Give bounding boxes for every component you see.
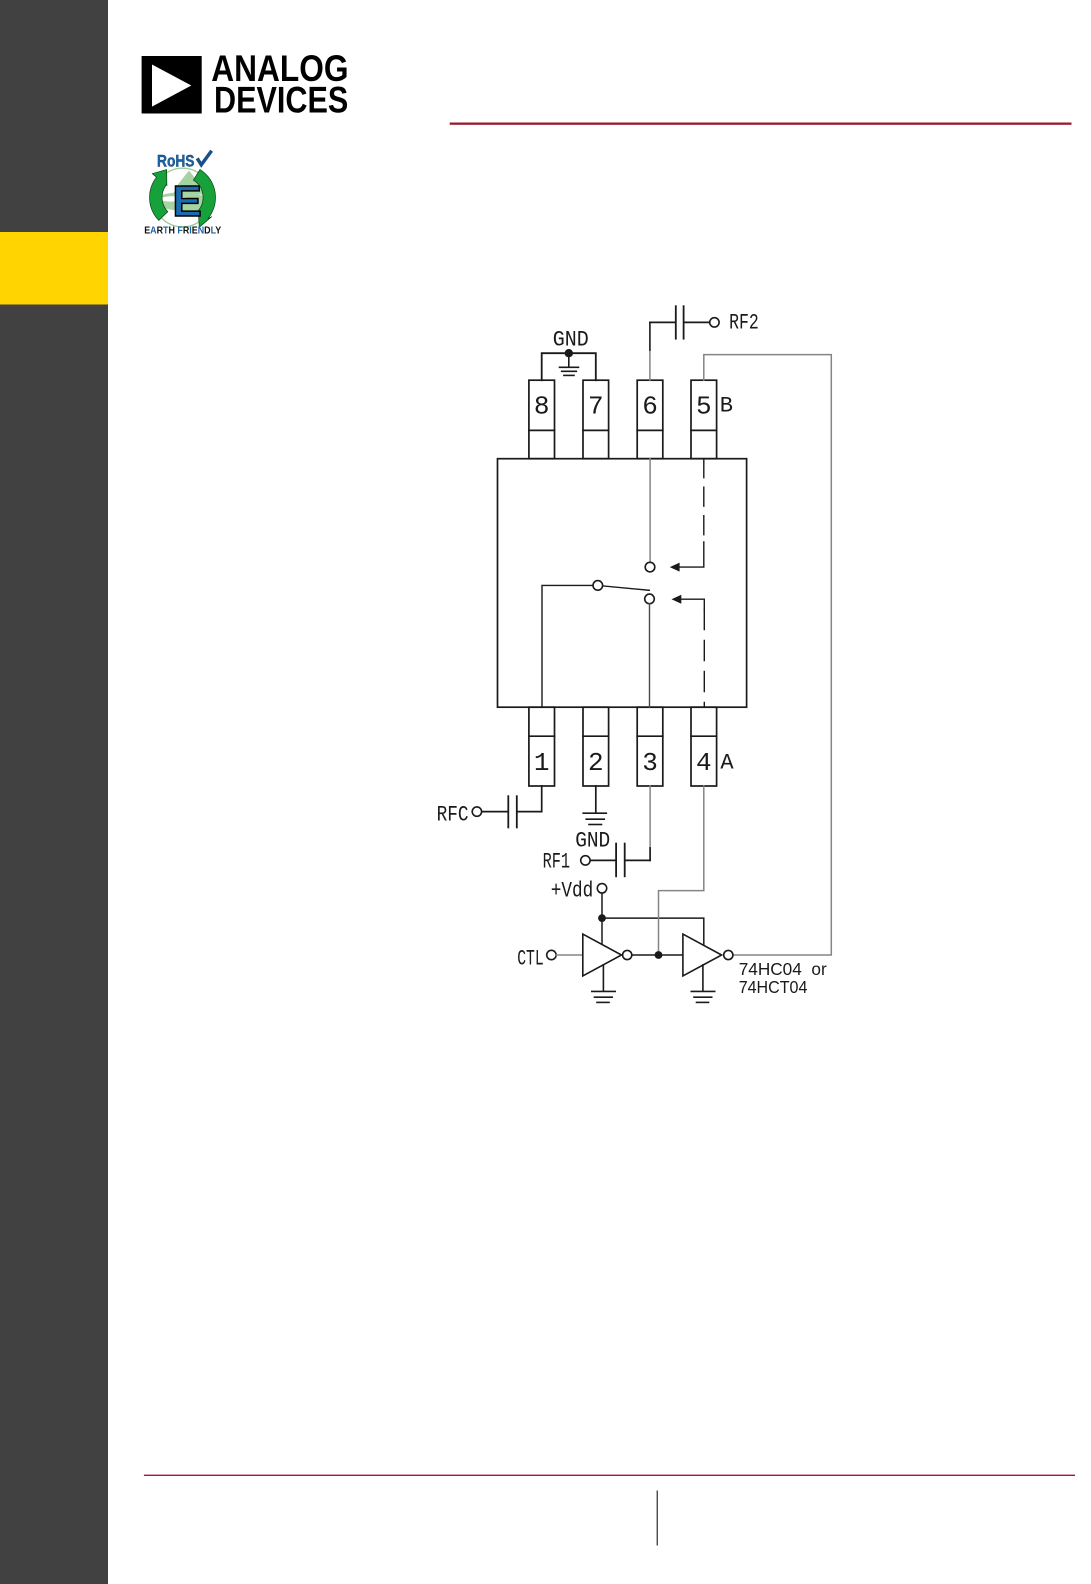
wire pin 1 to RFC cap xyxy=(518,786,542,812)
ground inverter 1 xyxy=(592,965,615,1003)
switch arm xyxy=(603,586,650,590)
pin 6 box xyxy=(637,380,663,459)
node GND junction dot xyxy=(565,349,573,357)
svg-text:RF2: RF2 xyxy=(729,311,759,336)
terminal RF2 xyxy=(710,318,719,327)
terminal RFC xyxy=(472,807,481,816)
dashed control line A xyxy=(681,598,704,600)
svg-text:1: 1 xyxy=(534,748,550,778)
wire GND net pins 8-7 xyxy=(542,353,596,380)
top red rule xyxy=(450,123,1072,125)
terminal CTL xyxy=(547,950,556,959)
svg-text:GND: GND xyxy=(575,829,610,854)
svg-text:RFC: RFC xyxy=(437,803,469,828)
wire CTL to inverter 1 (grey) xyxy=(556,954,583,956)
pin 5 box xyxy=(691,380,717,459)
svg-text:RF1: RF1 xyxy=(543,849,571,874)
svg-text:RoHS: RoHS xyxy=(157,152,195,170)
pin 1 box xyxy=(529,707,555,786)
footer divider tick xyxy=(657,1491,658,1546)
node Vdd junction dot xyxy=(598,914,606,922)
wire RF1 throw to pin 3 (inside IC) xyxy=(649,604,651,708)
svg-text:B: B xyxy=(720,394,733,419)
svg-text:74HC04 or: 74HC04 or xyxy=(739,959,827,979)
capacitor at RF2 xyxy=(676,306,684,339)
pin 2 box xyxy=(583,707,609,786)
svg-text:6: 6 xyxy=(642,392,658,422)
ground top xyxy=(560,353,579,375)
wire pin 5 / B control loop (grey) xyxy=(704,355,832,955)
svg-text:74HCT04: 74HCT04 xyxy=(739,977,808,997)
svg-text:7: 7 xyxy=(588,392,604,422)
svg-text:5: 5 xyxy=(696,392,712,422)
wire cap right lead RF1 xyxy=(626,859,651,861)
wire cap right lead xyxy=(685,321,710,323)
wire pin 2 to ground xyxy=(595,786,597,812)
inverter U2A xyxy=(583,934,622,976)
inverter U2A output bubble xyxy=(623,950,632,959)
wire pin 3 to RF1 cap (grey) xyxy=(649,786,651,848)
switch contact RF2 throw xyxy=(645,562,655,572)
pin 8 box xyxy=(529,380,555,459)
ground inverter 2 xyxy=(691,965,714,1003)
svg-text:CTL: CTL xyxy=(517,946,544,971)
arrow A xyxy=(672,595,682,604)
svg-text:8: 8 xyxy=(534,392,550,422)
pin 4 box xyxy=(691,707,717,786)
bottom red rule xyxy=(144,1475,1075,1476)
RoHS earth friendly logo xyxy=(144,151,221,237)
left sidebar bar xyxy=(0,0,108,1584)
wire pin 6 inside IC (grey) xyxy=(649,459,651,563)
node inverter output junction dot xyxy=(655,951,663,959)
wire +Vdd down to inverter 1 xyxy=(601,893,603,944)
svg-text:4: 4 xyxy=(696,748,712,778)
wire cap left lead xyxy=(650,321,675,323)
svg-text:3: 3 xyxy=(642,748,658,778)
capacitor at RF1 xyxy=(616,844,625,877)
inverter U2B output bubble xyxy=(724,950,733,959)
Analog Devices logo square xyxy=(142,56,202,114)
wire pin 4 / A control loop (grey) xyxy=(659,786,704,955)
terminal RF1 xyxy=(581,856,590,865)
capacitor at RFC xyxy=(508,796,517,827)
ground pin 2 xyxy=(583,813,606,824)
svg-text:EARTH FRIENDLY: EARTH FRIENDLY xyxy=(144,225,221,236)
arrow B xyxy=(670,563,680,572)
wire Vdd rail to inverter 2 xyxy=(602,918,704,945)
svg-text:2: 2 xyxy=(588,748,604,778)
svg-text:E: E xyxy=(173,177,202,226)
wire pole to pin 1 xyxy=(542,585,593,707)
wire inverter1 out to inverter2 in xyxy=(632,954,683,956)
dashed control line B xyxy=(703,459,705,542)
svg-text:+Vdd: +Vdd xyxy=(551,879,594,904)
IC body U1 xyxy=(498,459,747,708)
pin 7 box xyxy=(583,380,609,459)
wire RF1 lead xyxy=(590,859,615,861)
yellow tab xyxy=(0,232,108,305)
pin 3 box xyxy=(637,707,663,786)
terminal +Vdd xyxy=(597,884,606,893)
switch contact RF1 throw xyxy=(645,594,655,604)
Analog Devices logo wordmark xyxy=(211,48,348,121)
svg-text:DEVICES: DEVICES xyxy=(214,80,348,121)
wire RFC lead xyxy=(482,811,508,813)
switch pole contact xyxy=(593,581,603,591)
wire pin 6 to RF2 cap (grey) xyxy=(649,350,651,380)
svg-text:A: A xyxy=(720,750,734,775)
inverter U2B xyxy=(683,934,722,976)
svg-text:GND: GND xyxy=(553,327,589,352)
